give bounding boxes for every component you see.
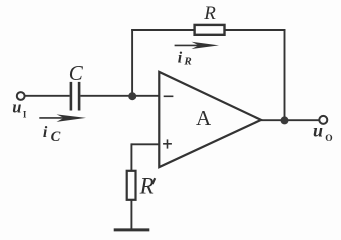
svg-text:A: A	[196, 106, 212, 130]
arrow iR	[175, 42, 219, 49]
svg-text:O: O	[325, 134, 332, 144]
resistor R'	[127, 171, 136, 200]
svg-text:R: R	[203, 3, 216, 24]
svg-text:i: i	[43, 124, 48, 141]
svg-text:i: i	[178, 49, 183, 66]
wire: R' to ground	[130, 201, 132, 230]
svg-text:R: R	[183, 56, 191, 68]
svg-text:u: u	[313, 121, 323, 141]
node dot (inverting input)	[128, 92, 136, 100]
wire: non-inverting input horizontal	[131, 143, 158, 145]
wire: node up to feedback branch	[131, 29, 133, 96]
output terminal uO	[319, 116, 327, 124]
wire: op-amp output to terminal	[261, 119, 319, 121]
svg-text:u: u	[12, 98, 21, 117]
svg-text:I: I	[23, 110, 27, 120]
wire: capacitor to inverting input of op-amp	[80, 95, 158, 97]
node dot (output)	[281, 116, 289, 124]
minus sign	[164, 95, 174, 97]
svg-text:C: C	[51, 129, 61, 145]
arrow iC	[39, 114, 86, 122]
wire: top feedback left segment	[131, 29, 194, 31]
ground	[114, 228, 150, 231]
capacitor C plates	[71, 82, 79, 111]
wire: down to resistor R'	[130, 143, 132, 171]
op-amp A triangle	[159, 72, 261, 167]
svg-text:C: C	[69, 61, 84, 85]
plus sign	[163, 143, 172, 145]
wire: top feedback right segment	[225, 29, 285, 31]
resistor R (feedback)	[195, 25, 225, 35]
wire: input terminal to capacitor	[24, 95, 69, 97]
input terminal u1	[17, 92, 25, 100]
wire: feedback down to output node	[284, 29, 286, 120]
svg-text:R: R	[139, 173, 154, 198]
